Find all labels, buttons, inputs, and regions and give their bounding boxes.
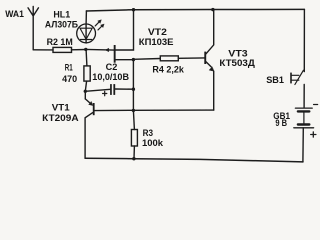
wire LED anode to top rail xyxy=(85,11,87,24)
wire source to R4 xyxy=(133,58,160,61)
node dot source xyxy=(132,58,135,61)
wire VT3 emitter to VT1 base xyxy=(94,109,213,112)
svg-text:R2 1M: R2 1M xyxy=(47,37,73,48)
svg-text:КТ503Д: КТ503Д xyxy=(219,58,255,69)
node dot VT3 collector at top rail xyxy=(211,8,214,11)
svg-text:R1: R1 xyxy=(65,62,73,72)
capacitor C2 xyxy=(85,84,133,96)
wire R4 to VT3 base xyxy=(178,57,204,59)
svg-text:SB1: SB1 xyxy=(266,75,284,86)
wire top rail xyxy=(86,9,304,11)
node dot C2 right xyxy=(132,88,135,91)
node dot drain at top rail xyxy=(132,8,135,11)
switch SB1 xyxy=(290,70,304,107)
svg-text:100k: 100k xyxy=(142,138,164,148)
node dot R3 bottom xyxy=(132,157,135,160)
resistor R2 xyxy=(53,47,72,52)
wire node A down to R1 xyxy=(85,50,88,66)
transistor VT3 xyxy=(204,10,214,111)
svg-text:VT1: VT1 xyxy=(52,103,71,114)
svg-text:R3: R3 xyxy=(143,128,153,138)
transistor VT2 (JFET) xyxy=(114,10,134,90)
wire right rail top xyxy=(303,9,305,71)
transistor VT1 xyxy=(85,91,95,158)
svg-text:КП103Е: КП103Е xyxy=(139,37,174,48)
LED HL1 xyxy=(77,20,104,43)
wire R1 to emitter node xyxy=(85,81,86,91)
battery GB1 xyxy=(294,105,318,162)
resistor R1 xyxy=(84,66,90,81)
svg-text:470: 470 xyxy=(62,74,77,85)
node dot at R3 top wire crossing xyxy=(132,109,135,112)
wire bottom rail xyxy=(85,158,303,162)
wire gate of VT2 from node A xyxy=(86,48,114,51)
svg-text:HL1: HL1 xyxy=(53,10,70,20)
svg-text:10,0/10В: 10,0/10В xyxy=(92,72,129,82)
svg-text:R4 2,2k: R4 2,2k xyxy=(152,64,184,75)
svg-text:АЛ307Б: АЛ307Б xyxy=(45,20,78,31)
resistor R3 xyxy=(131,130,137,147)
svg-text:9 В: 9 В xyxy=(275,118,287,128)
wire antenna to R2 xyxy=(33,49,53,51)
node dot emitter/C2 xyxy=(84,90,87,93)
resistor R4 xyxy=(160,56,178,61)
wire R2 to node A xyxy=(72,49,87,51)
wire source node down to R3 xyxy=(133,89,134,129)
antenna WA1 xyxy=(28,7,39,50)
svg-text:C2: C2 xyxy=(106,62,118,72)
node A junction dot xyxy=(84,48,87,51)
svg-text:WA1: WA1 xyxy=(5,9,24,20)
svg-text:КТ209А: КТ209А xyxy=(42,113,79,124)
wire R3 to bottom rail xyxy=(133,146,135,159)
